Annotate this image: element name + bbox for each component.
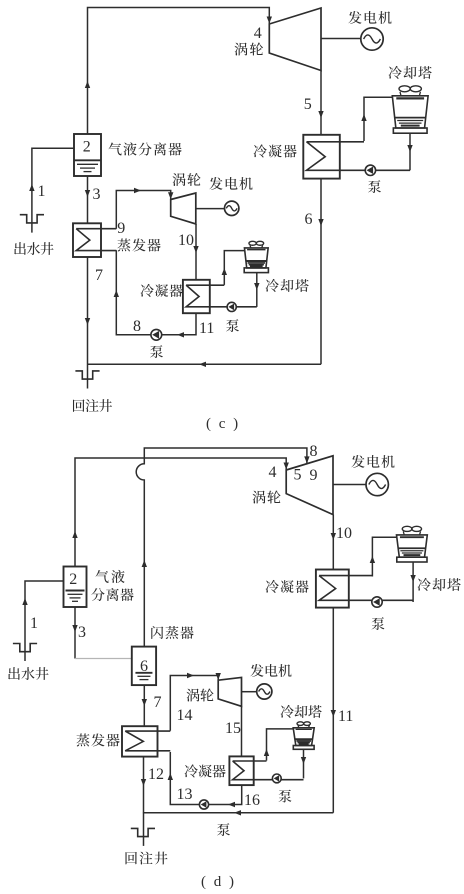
- pump binary: [151, 329, 162, 340]
- svg-text:6: 6: [140, 658, 148, 675]
- wire 9 evaporator vapor to small turbine: [116, 191, 170, 229]
- svg-text:4: 4: [254, 25, 262, 42]
- wire small generator shaft: [196, 208, 225, 210]
- wire 7 evaporator brine outlet to well: [87, 257, 89, 389]
- wire 15 small turbine to condenser d: [241, 706, 243, 756]
- svg-text:10: 10: [178, 232, 194, 249]
- generator main: [361, 28, 383, 50]
- wire separator top to turbine inlet 4: [88, 8, 270, 135]
- turbine binary d: [218, 677, 241, 706]
- svg-text:3: 3: [78, 624, 86, 641]
- gas-liquid separator 2: [74, 134, 101, 176]
- flow arrow 3 down: [85, 190, 90, 197]
- evaporator heat exchanger: [73, 223, 116, 257]
- label reinjection well text: [73, 399, 112, 412]
- svg-text:13: 13: [177, 786, 193, 803]
- flow arrow 10 down: [193, 246, 198, 253]
- wire small condenser to tower riser d: [267, 729, 294, 761]
- turbine main: [269, 8, 321, 71]
- wire condenser to tower riser d: [372, 537, 396, 576]
- svg-text:3: 3: [93, 186, 101, 203]
- flow arrow 4 up riser d: [72, 531, 77, 538]
- flow arrow down tower d: [410, 575, 415, 582]
- svg-text:14: 14: [177, 707, 193, 724]
- svg-text:8: 8: [310, 443, 318, 460]
- flash vessel 6: [132, 647, 156, 686]
- cooling tower main d: [397, 526, 428, 562]
- label cooling tower main text d: [418, 578, 461, 591]
- gas-liquid separator 2 d: [64, 567, 87, 608]
- flow arrow 7 down d: [142, 699, 147, 706]
- wire well1 to separator inlet d: [25, 581, 64, 661]
- svg-text:2: 2: [83, 138, 91, 155]
- wire 12 evaporator outlet to well d: [143, 757, 145, 846]
- flow arrow 8 up: [114, 290, 119, 297]
- svg-text:9: 9: [310, 467, 318, 484]
- svg-text:11: 11: [199, 320, 214, 337]
- wire small tower downcomer d: [303, 749, 305, 778]
- flow arrow 13 left d: [228, 802, 235, 807]
- label condenser main text: [254, 144, 297, 157]
- svg-text:9: 9: [117, 220, 125, 237]
- label gas-liquid separator text: [109, 142, 182, 155]
- svg-text:2: 2: [69, 571, 77, 588]
- wire 11 condenser outlet down d: [332, 608, 334, 813]
- flow arrow 14 right d: [187, 673, 194, 678]
- wire 8 flash steam riser with hop: [136, 448, 307, 647]
- svg-text:11: 11: [338, 708, 353, 725]
- flow arrow 8 up d: [142, 560, 147, 567]
- label generator main text d: [351, 455, 394, 468]
- label turbine main text d: [252, 490, 280, 503]
- wire return line to reinjection well: [88, 363, 322, 365]
- label separator text d line1: [96, 570, 125, 583]
- wire small tower downcomer: [256, 273, 258, 307]
- svg-text:7: 7: [95, 267, 103, 284]
- flow arrow 5 down: [318, 111, 323, 118]
- cooling tower binary: [244, 241, 268, 272]
- flow arrow into small turbine d: [216, 673, 221, 680]
- svg-text:16: 16: [244, 792, 260, 809]
- pump binary d: [199, 800, 208, 809]
- flow arrow down small tower: [254, 283, 259, 290]
- flow arrow 11 down d: [331, 710, 336, 717]
- label pump main text d: [372, 617, 385, 630]
- flow arrow up small tower d: [264, 749, 269, 756]
- label cooling tower main text: [389, 66, 432, 79]
- wire 3 separator to flash d: [74, 607, 76, 659]
- svg-text:12: 12: [148, 766, 164, 783]
- wire 11-8 condensate return: [116, 250, 196, 334]
- wire bottom return to reinjection well d: [143, 812, 333, 814]
- wire small generator shaft d: [242, 691, 257, 693]
- wire well1 to separator inlet: [32, 148, 74, 232]
- production well head: [20, 215, 44, 223]
- evaporator d: [122, 726, 170, 756]
- turbine binary: [171, 193, 196, 224]
- flow arrow 3 down d: [72, 625, 77, 632]
- label condenser main text d: [266, 580, 309, 593]
- label generator binary text d: [250, 664, 291, 677]
- condenser binary: [183, 280, 257, 313]
- wire generator shaft d: [333, 484, 366, 486]
- wire generator shaft: [321, 38, 361, 40]
- flow arrow down small tower d: [301, 757, 306, 764]
- svg-text:10: 10: [336, 525, 352, 542]
- label generator binary text: [209, 177, 252, 190]
- label turbine main text: [234, 42, 263, 55]
- wire tower downcomer d: [412, 562, 414, 602]
- condenser main d: [316, 570, 413, 608]
- label separator text d line2: [91, 588, 133, 601]
- flow arrow 4 into turbine d: [284, 463, 289, 470]
- label pump binary text: [150, 345, 163, 358]
- label pump main text: [368, 180, 381, 193]
- label cooling tower binary text d: [281, 705, 322, 718]
- cooling tower binary d: [293, 722, 314, 750]
- svg-text:4: 4: [269, 464, 277, 481]
- pump cooling main d: [372, 597, 382, 607]
- pump cooling binary d: [272, 774, 281, 783]
- flow arrow up separator steam: [85, 81, 90, 88]
- label turbine binary text: [172, 173, 200, 186]
- label pump cooling binary text d: [279, 790, 292, 803]
- flow arrow 11 left: [177, 332, 184, 337]
- label pump binary text d: [217, 823, 230, 836]
- label turbine binary text d: [186, 688, 213, 701]
- flow arrow 9 right: [134, 188, 141, 193]
- condenser main: [303, 135, 410, 179]
- flow arrow 8 into turbine d: [304, 456, 309, 463]
- generator binary: [225, 201, 239, 215]
- wire 5 turbine exhaust to condenser: [320, 71, 322, 135]
- wire 10 turbine to condenser d: [332, 515, 334, 570]
- turbine main d: [286, 456, 333, 515]
- reinjection well head: [75, 371, 99, 379]
- svg-text:5: 5: [294, 467, 302, 484]
- label pump cooling binary text: [226, 319, 239, 332]
- svg-text:7: 7: [154, 694, 162, 711]
- wire 16-13 condensate return d: [170, 752, 241, 805]
- label flash vessel text: [151, 626, 193, 639]
- svg-text:( c ): ( c ): [206, 416, 240, 432]
- flow arrow up small tower: [222, 268, 227, 275]
- generator binary d: [257, 684, 272, 699]
- reinjection well head d: [131, 828, 155, 836]
- pump cooling main: [365, 165, 375, 175]
- wire 6 condenser outlet: [320, 179, 322, 365]
- label evaporator text d: [76, 733, 119, 746]
- svg-text:8: 8: [133, 318, 141, 335]
- production well head d: [13, 644, 37, 652]
- label condenser binary text: [141, 284, 183, 297]
- flow arrow up tower d: [370, 556, 375, 563]
- flow arrow into small turbine: [168, 192, 173, 199]
- flow arrow return left: [199, 362, 206, 367]
- flow arrow 10 down d: [331, 533, 336, 540]
- flow arrow 13 up d: [168, 773, 173, 780]
- wire 14 evaporator vapor to small turbine d: [170, 676, 218, 731]
- flow arrow 12 down d: [141, 779, 146, 786]
- flow arrow into turbine: [267, 17, 272, 24]
- flow arrow return left d: [234, 810, 241, 815]
- flow arrow 6 down: [318, 219, 323, 226]
- wire condenser to cooling tower riser: [364, 97, 392, 141]
- wire 4 separator steam to turbine d: [75, 458, 286, 567]
- label generator main text: [348, 11, 391, 24]
- label production well text d: [8, 667, 48, 680]
- svg-text:15: 15: [225, 720, 241, 737]
- condenser binary d: [229, 756, 303, 785]
- label condenser binary text d: [185, 764, 226, 777]
- wire small condenser to small tower riser: [224, 251, 244, 285]
- flow arrow 1 up d: [22, 598, 27, 605]
- generator main d: [366, 473, 388, 495]
- svg-text:5: 5: [304, 96, 312, 113]
- wire tower downcomer: [409, 133, 411, 170]
- label production well text: [14, 242, 53, 255]
- label reinjection well text d: [125, 852, 167, 865]
- wire 7 flash to evaporator d: [143, 685, 145, 726]
- svg-text:6: 6: [305, 211, 313, 228]
- flow arrow 7 down: [85, 318, 90, 325]
- wire 10 small turbine to small condenser: [195, 224, 197, 280]
- svg-text:1: 1: [30, 615, 38, 632]
- svg-text:1: 1: [38, 183, 46, 200]
- wire 3 separator to evaporator: [87, 176, 89, 223]
- flow arrow down from tower: [407, 145, 412, 152]
- svg-text:( d ): ( d ): [201, 874, 236, 890]
- label cooling tower binary text: [266, 279, 309, 292]
- cooling tower main: [392, 86, 428, 133]
- flow arrow up to tower: [361, 114, 366, 121]
- label evaporator text: [117, 238, 160, 251]
- flow arrow 1 up: [29, 184, 34, 191]
- wire 3 horizontal to flash vessel: [75, 658, 132, 660]
- pump cooling binary: [227, 302, 236, 311]
